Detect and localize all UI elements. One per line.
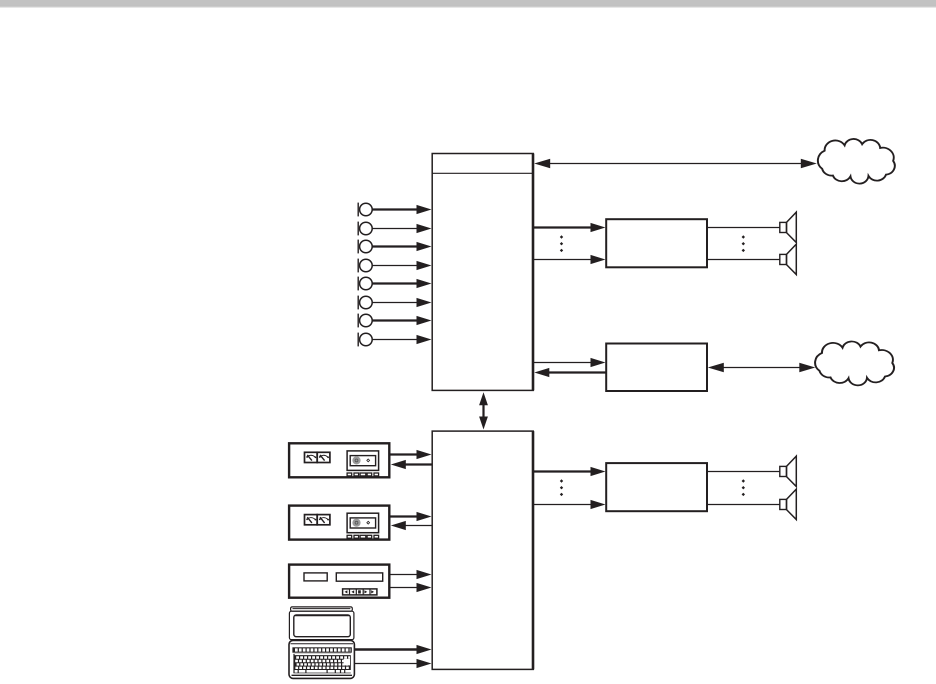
speaker SP4 (780, 489, 797, 519)
VU meters of D1 (305, 452, 330, 462)
wire: A2 to speaker SP4 (707, 504, 780, 506)
top gray bar (0, 0, 936, 8)
speaker SP3 (780, 456, 797, 486)
microphone MIC2 (358, 222, 372, 236)
wire: MIC2 to U1 (372, 224, 431, 233)
dots: channels U2-A2 (560, 479, 563, 496)
wire: U2 to A2 line n (534, 500, 606, 509)
amplifier box A2 (606, 463, 707, 511)
microphone MIC7 (358, 314, 372, 328)
block U1 header partition line (432, 172, 533, 174)
laptop D4 main key block (293, 654, 351, 674)
tape player D3 (289, 565, 389, 598)
wire: D1 to U2 (389, 450, 431, 459)
amplifier box A1 (606, 219, 707, 267)
tape slot of D3 (336, 573, 382, 581)
dots: channels A2-speakers (742, 479, 745, 496)
network interface box B1 (606, 344, 707, 392)
wire: MIC7 to U1 (372, 316, 431, 325)
cassette window of D2 (347, 513, 379, 533)
laptop D4 screen bezel (289, 611, 354, 639)
laptop D4 function key row (292, 647, 351, 652)
buttons of D1 (347, 473, 379, 476)
wire: D3 to U2 line 2 (389, 583, 431, 592)
wire: U1 to A1 line n (534, 255, 606, 264)
wire: bidirectional link U1-U2 (479, 392, 488, 429)
cloud N2 lower network (815, 341, 894, 385)
microphone MIC1 (358, 203, 372, 217)
laptop D4 screen (294, 615, 351, 637)
wire: U1 to A1 line 1 (534, 223, 606, 232)
wire: A2 to speaker SP3 (707, 471, 780, 473)
wire: A1 to speaker SP2 (707, 259, 780, 261)
cassette deck D1 (289, 443, 389, 477)
laptop D4 keyboard base (289, 640, 354, 678)
wire: A1 to speaker SP1 (707, 227, 780, 229)
transport buttons of D3 (343, 589, 377, 595)
dots: channels A1-speakers (742, 235, 745, 252)
VU meters of D2 (305, 515, 330, 525)
wire: MIC6 to U1 (372, 298, 431, 307)
buttons of D2 (347, 535, 379, 538)
block U2 lower control unit (432, 431, 533, 669)
wire: U1 to B1 (534, 358, 606, 367)
display window of D3 (304, 573, 327, 581)
laptop D4 lid top edge (291, 607, 353, 611)
wire: D4 to U2 line 1 (355, 645, 432, 654)
cassette deck D2 (289, 506, 389, 540)
wire: MIC3 to U1 (372, 242, 431, 251)
microphone MIC5 (358, 277, 372, 291)
speaker SP1 (780, 212, 797, 242)
block U1 upper control unit (432, 154, 533, 391)
microphone MIC4 (358, 259, 372, 273)
microphone MIC3 (358, 240, 372, 254)
wire: D2 to U2 (389, 512, 431, 521)
wire: MIC5 to U1 (372, 279, 431, 288)
wire: B1 to U1 (534, 368, 605, 377)
cloud N1 top network (818, 139, 895, 184)
cassette window of D1 (347, 451, 379, 471)
wire: MIC1 to U1 (372, 205, 431, 214)
dots: channels U1-A1 (560, 235, 563, 252)
wire: U2 to A2 line 1 (534, 467, 606, 476)
microphone MIC8 (358, 333, 372, 347)
wire: MIC4 to U1 (372, 261, 431, 270)
microphone MIC6 (358, 296, 372, 310)
wire: D4 to U2 line 2 (355, 659, 432, 668)
wire: MIC8 to U1 (372, 335, 431, 344)
wire: D3 to U2 line 1 (389, 570, 431, 579)
wire: B1 to cloud N2 (bidirectional) (708, 363, 816, 372)
wire: U2 to D1 (391, 460, 432, 469)
wire: U1 to cloud N1 (bidirectional) (534, 159, 817, 168)
wire: U2 to D2 (391, 521, 432, 530)
speaker SP2 (780, 244, 797, 274)
